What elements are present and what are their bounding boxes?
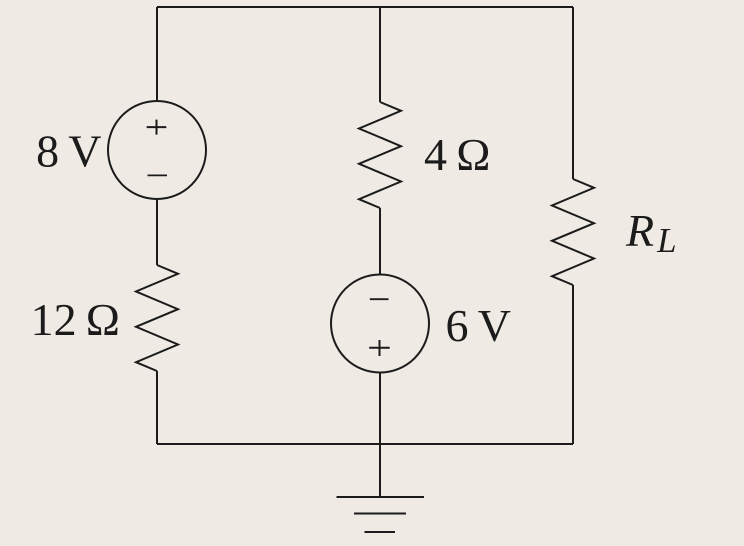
svg-text:8 V: 8 V [36,126,101,177]
svg-text:6 V: 6 V [446,300,511,351]
svg-text:12 Ω: 12 Ω [31,294,120,345]
svg-text:4 Ω: 4 Ω [424,129,490,180]
svg-text:RL: RL [625,205,677,260]
